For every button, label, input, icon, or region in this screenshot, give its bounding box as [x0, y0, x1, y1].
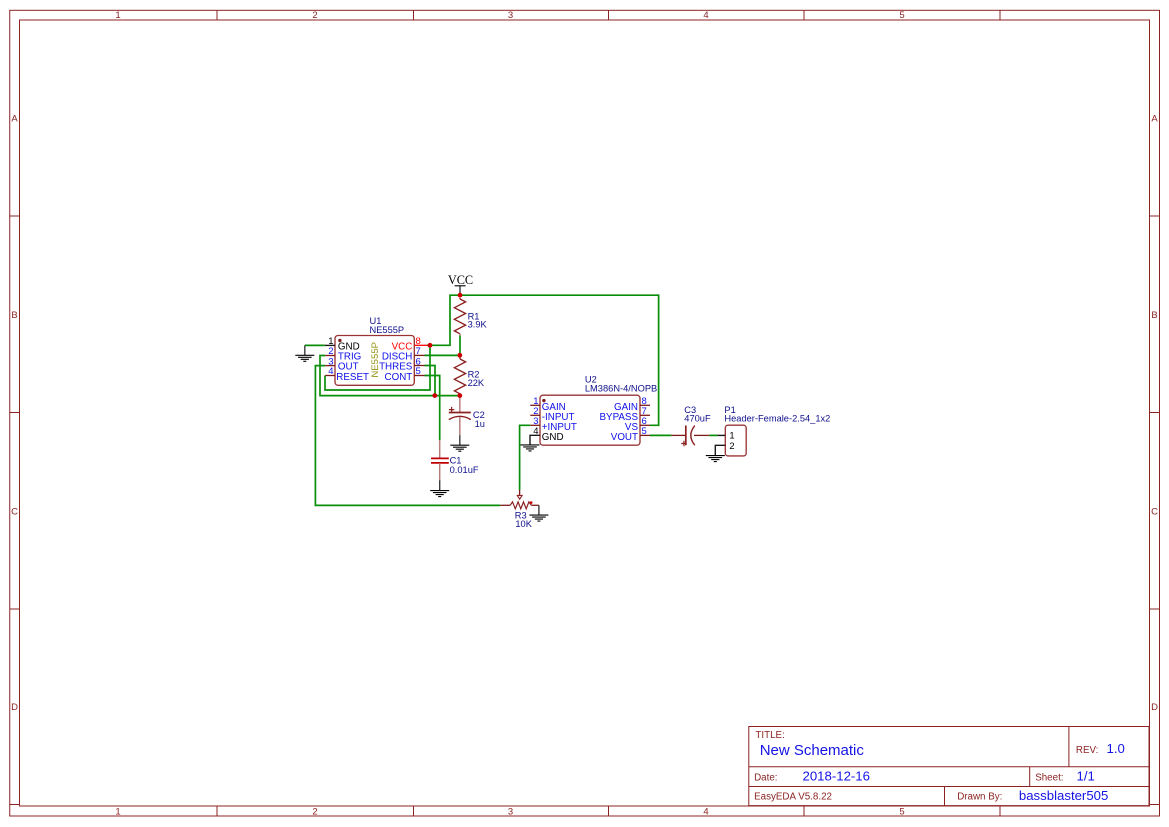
svg-text:A: A	[1151, 113, 1158, 124]
svg-text:2: 2	[312, 806, 317, 817]
svg-text:5: 5	[899, 10, 904, 21]
svg-text:B: B	[11, 310, 17, 321]
svg-text:VOUT: VOUT	[611, 432, 638, 443]
svg-text:4: 4	[533, 426, 538, 437]
U2 pin 3 stub	[530, 424, 540, 426]
ground below C2	[450, 435, 469, 451]
junction node pin8 VCC	[428, 343, 433, 348]
ground below C1	[430, 480, 449, 496]
U1 pin1 marker dot	[338, 339, 341, 342]
svg-text:5: 5	[642, 426, 647, 437]
P1 pin 1 wire	[717, 434, 725, 436]
svg-text:EasyEDA V5.8.22: EasyEDA V5.8.22	[754, 792, 832, 803]
op-amp U2 LM386N body	[540, 395, 640, 445]
U1 pin 2 stub	[325, 355, 335, 357]
svg-text:3: 3	[508, 806, 513, 817]
wire VOUT to C3	[650, 434, 671, 436]
svg-text:RESET: RESET	[336, 372, 369, 383]
U1 pin 4 stub	[325, 375, 335, 377]
U1 pin 8 stub	[414, 344, 427, 346]
svg-text:5: 5	[899, 806, 904, 817]
wire +INPUT to R3 wiper	[520, 425, 531, 490]
wire TRIG to THRES net	[320, 356, 460, 396]
svg-text:4: 4	[703, 806, 708, 817]
svg-text:1: 1	[729, 430, 734, 441]
svg-text:5: 5	[416, 366, 421, 377]
svg-text:C: C	[11, 506, 18, 517]
svg-text:CONT: CONT	[385, 372, 413, 383]
svg-text:22K: 22K	[468, 378, 485, 388]
svg-text:Date:: Date:	[754, 772, 777, 783]
junction node R1-R2-DISCH	[457, 353, 462, 358]
svg-text:C: C	[1151, 506, 1158, 517]
svg-text:Header-Female-2.54_1x2: Header-Female-2.54_1x2	[724, 413, 830, 423]
U2 pin 4 stub to ground	[530, 435, 540, 445]
svg-text:B: B	[1151, 310, 1157, 321]
resistor R1	[454, 298, 465, 335]
svg-text:A: A	[11, 113, 18, 124]
U2 pin 8 stub	[640, 404, 650, 406]
ground at P1 pin2	[706, 456, 725, 462]
wire R1 bottom to junction	[459, 335, 461, 355]
svg-text:1.0: 1.0	[1107, 741, 1125, 756]
junction node THRES-TRIG	[432, 393, 437, 398]
svg-text:10K: 10K	[515, 519, 532, 529]
svg-text:New Schematic: New Schematic	[760, 742, 865, 759]
wire VCC rail from U1 pin8 to U2 VS	[427, 295, 659, 425]
capacitor C2 polarized	[449, 396, 471, 436]
U2 pin 5 stub	[640, 434, 650, 436]
svg-text:470uF: 470uF	[684, 413, 711, 423]
svg-text:Sheet:: Sheet:	[1035, 772, 1063, 783]
wire VCC to RESET	[325, 345, 430, 390]
svg-text:bassblaster505: bassblaster505	[1019, 788, 1108, 803]
capacitor C1	[431, 440, 449, 480]
wire U1 GND pin1	[305, 344, 325, 346]
U1 pin 3 stub	[325, 365, 335, 367]
U1 pin 5 stub	[414, 375, 424, 377]
svg-text:Drawn By:: Drawn By:	[957, 792, 1002, 803]
svg-text:3: 3	[508, 10, 513, 21]
wire THRES down	[425, 366, 436, 396]
connector P1 body	[725, 425, 746, 456]
svg-text:REV:: REV:	[1076, 745, 1099, 756]
junction node R2-C2	[457, 393, 462, 398]
wire OUT to R3	[315, 366, 500, 506]
svg-text:NE555P: NE555P	[370, 342, 381, 378]
capacitor C3 polarized	[671, 426, 709, 447]
svg-text:1/1: 1/1	[1077, 768, 1095, 783]
svg-text:VCC: VCC	[448, 273, 473, 287]
ground at R3	[529, 505, 548, 521]
svg-text:TITLE:: TITLE:	[755, 730, 784, 741]
svg-text:0.01uF: 0.01uF	[450, 465, 479, 475]
U2 pin 6 stub	[640, 424, 650, 426]
ground at U1 pin1	[295, 345, 314, 361]
column tick marks bottom	[217, 806, 1000, 816]
svg-text:2018-12-16: 2018-12-16	[803, 768, 870, 783]
title block outline	[749, 727, 1150, 807]
svg-text:LM386N-4/NOPB: LM386N-4/NOPB	[585, 384, 657, 394]
svg-text:1: 1	[115, 806, 120, 817]
wire CONT to C1	[425, 376, 440, 441]
svg-text:1: 1	[115, 10, 120, 21]
op-amp U1 NE555P body	[335, 336, 414, 386]
U2 pin 7 stub	[640, 414, 650, 416]
wire DISCH to R1/R2 junction	[425, 354, 460, 356]
U2 pin1 marker dot	[542, 399, 545, 402]
U1 pin 7 stub	[414, 354, 424, 356]
svg-text:D: D	[1151, 702, 1158, 713]
U1 pin 1 stub	[325, 344, 335, 346]
svg-text:4: 4	[703, 10, 708, 21]
power flag VCC	[448, 273, 473, 295]
svg-text:NE555P: NE555P	[370, 325, 405, 335]
svg-text:2: 2	[729, 440, 734, 451]
row tick marks right	[1150, 216, 1160, 805]
svg-text:4: 4	[328, 366, 333, 377]
svg-text:D: D	[11, 702, 18, 713]
column tick marks top	[217, 10, 1000, 20]
wire C3 to P1	[709, 434, 717, 436]
U2 pin 1 stub	[530, 404, 540, 406]
junction node VCC-R1	[458, 293, 463, 298]
ground at U2 pin4	[521, 445, 540, 451]
row tick marks left	[10, 216, 20, 805]
svg-text:2: 2	[312, 10, 317, 21]
resistor R2	[454, 358, 465, 396]
resistor R3 with wiper arrow	[500, 490, 539, 509]
svg-text:1u: 1u	[475, 419, 485, 429]
P1 pin 2 stub	[715, 445, 725, 455]
U2 pin 2 stub	[530, 414, 540, 416]
svg-text:3.9K: 3.9K	[468, 320, 488, 330]
U1 pin 6 stub	[414, 365, 424, 367]
svg-text:GND: GND	[542, 432, 564, 443]
